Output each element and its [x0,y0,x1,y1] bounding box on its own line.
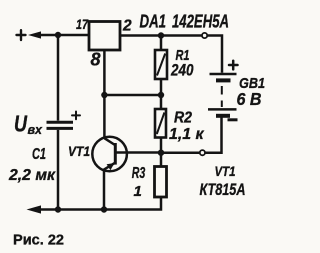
wire battery minus to terminal [205,116,222,153]
svg-text:240: 240 [170,62,194,80]
wire node D to node C [104,94,161,97]
output minus terminal circle [200,150,205,155]
resistor R2 [155,109,166,138]
svg-text:R2: R2 [174,110,192,127]
node G junction (emitter on rail) [101,206,107,212]
svg-text:1: 1 [134,183,142,200]
GB1 cell 2 long plate [208,108,237,111]
svg-text:DA1: DA1 [140,12,167,32]
node C junction (R1/R2, pin8) [158,92,164,98]
capacitor C1 [47,112,81,129]
wire C1 bottom to rail [57,130,60,210]
VT1 emitter diagonal [104,163,115,170]
wire node A down to C1 [57,35,60,121]
GB1 cell 1 long plate [210,73,237,76]
wire R2 bottom [160,138,163,153]
op-amp regulator DA1 box [89,22,120,51]
svg-text:8: 8 [91,50,101,70]
GB1 dashed cell link [221,86,223,107]
node D junction (pin8/collector) [101,92,107,98]
resistor R3 [155,167,167,198]
svg-text:VT1: VT1 [68,143,90,159]
input plus terminal sign [17,30,26,40]
C1 bottom plate [47,127,74,130]
wire emitter down [103,170,106,210]
svg-text:6 В: 6 В [237,89,262,109]
wire terminal to battery plus [207,36,222,73]
svg-text:КТ815А: КТ815А [200,180,246,199]
node A junction (input) [55,32,61,38]
wire input to node A [34,34,89,37]
wire R1 top [160,36,163,51]
wire R3 top [160,153,163,167]
svg-text:2,2 мк: 2,2 мк [8,167,56,184]
wire base to node E [115,151,161,154]
wire R3 bottom to rail corner [40,197,161,210]
VT1 base bar [114,143,117,165]
battery GB1 [208,61,238,120]
wire terminal to base node [161,151,200,154]
GB1 cell 1 short plate [216,78,231,82]
GB1 minus sign [228,118,238,121]
C1 plus sign [72,112,80,120]
resistor R1 [155,50,167,79]
svg-text:U: U [14,111,28,137]
C1 top plate [47,121,74,124]
svg-text:142ЕН5А: 142ЕН5А [172,12,229,32]
node F junction (C1 on rail) [55,206,61,212]
node B junction (output top, R1) [158,32,164,38]
GB1 cell 2 short plate [216,114,230,118]
VT1 envelope circle [92,137,127,172]
svg-text:вх: вх [28,123,44,137]
wire DA1 pin 8 down [103,50,106,95]
output plus terminal circle [202,33,207,38]
svg-text:Рис. 22: Рис. 22 [13,232,64,249]
VT1 collector diagonal [104,138,115,145]
wire R1 to R2 [160,79,163,109]
svg-text:VT1: VT1 [215,163,236,179]
GB1 plus sign [229,61,238,70]
transistor VT1 [92,137,127,172]
VT1 emitter arrow [107,163,115,170]
svg-text:С1: С1 [32,146,46,163]
svg-text:2: 2 [122,18,132,35]
wire DA1 pin2 output to terminal [120,34,202,37]
svg-text:17: 17 [76,16,89,32]
svg-text:1,1 к: 1,1 к [169,126,204,143]
svg-text:R3: R3 [132,165,146,182]
node E junction (base/R2/R3) [158,150,164,156]
wire collector [103,95,106,138]
output minus arrow [27,205,42,213]
input terminal arrow [28,31,41,38]
